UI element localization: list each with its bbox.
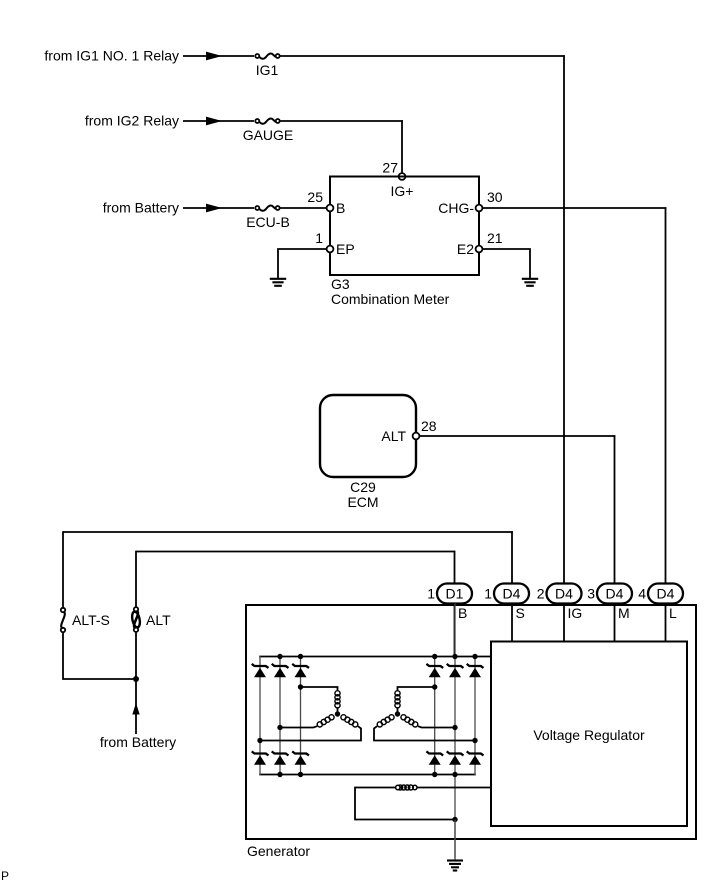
wire S vertical down to connector D4-1: [511, 531, 513, 583]
wire voltage regulator to rotor brush: [417, 787, 491, 789]
rectifier bottom diode 2: [272, 751, 289, 764]
svg-text:1: 1: [315, 230, 323, 246]
stator coil R-U (vertical): [395, 691, 400, 708]
svg-text:Voltage Regulator: Voltage Regulator: [533, 727, 645, 743]
wire stator L phase U (top tap): [301, 687, 338, 690]
svg-text:D4: D4: [503, 586, 521, 602]
svg-text:1: 1: [427, 586, 435, 602]
chassis ground symbol: [447, 861, 463, 871]
pin 28 terminal circle: [413, 433, 420, 440]
svg-text:E2: E2: [457, 241, 474, 257]
svg-text:B: B: [336, 200, 345, 216]
wire EP pin to ground: [278, 249, 327, 279]
label Voltage Regulator: [533, 727, 645, 743]
svg-text:ALT: ALT: [381, 428, 406, 444]
connector D4 pin 2 (IG): [537, 584, 582, 604]
label Generator: [247, 843, 310, 859]
ground for E2: [522, 279, 538, 286]
wire stator R phase W wrap to column 6: [374, 726, 475, 740]
wire stator L phase V to column 2: [280, 726, 317, 727]
flow arrow on battery feed: [206, 204, 222, 213]
wire junction down toward battery: [135, 679, 137, 734]
wire M terminal to voltage regulator: [614, 604, 616, 643]
wire coil to star point R: [397, 709, 399, 715]
pin 27 terminal circle: [399, 173, 406, 180]
wire battery to B terminal (horizontal): [136, 551, 455, 553]
stator coil R-W (lower-left diagonal): [377, 715, 394, 727]
stator coil R-V (lower-right diagonal): [401, 715, 418, 727]
terminal label S: [516, 605, 525, 621]
terminal label M: [618, 605, 630, 621]
terminal label L: [669, 605, 677, 621]
svg-text:4: 4: [638, 586, 646, 602]
svg-text:from IG2 Relay: from IG2 Relay: [85, 113, 179, 129]
svg-text:2: 2: [537, 586, 545, 602]
rectifier column wire 5 (B / ground column): [454, 604, 456, 859]
pin E2 terminal circle (21): [476, 246, 483, 253]
junction phase W tap: [257, 738, 262, 743]
wire battery to S terminal (top horizontal): [63, 531, 513, 533]
flow arrow on IG2 feed: [206, 117, 222, 126]
junction R phase W tap: [472, 738, 477, 743]
rectifier top diode 3: [292, 664, 309, 677]
connector D4 pin 3 (M): [587, 584, 632, 604]
svg-text:28: 28: [421, 418, 437, 434]
page letter P: [1, 869, 9, 882]
wire from battery feed: [183, 207, 254, 209]
junction R phase U tap: [432, 684, 437, 689]
rectifier bottom diode 4: [426, 751, 443, 764]
junction top bus col4: [432, 654, 437, 659]
wire IG1 vertical down to connector D4-2: [563, 55, 565, 583]
wire CHG- vertical down to connector D4-4: [665, 207, 667, 583]
wire from IG1 relay feed: [183, 55, 254, 57]
rectifier column wire 3: [300, 656, 302, 776]
rotor brush left: [396, 785, 400, 789]
star point right winding: [395, 711, 400, 716]
fusible link label ALT: [146, 612, 171, 628]
pin label IG+: [391, 183, 414, 199]
svg-text:IG1: IG1: [256, 62, 279, 78]
svg-text:D4: D4: [555, 586, 573, 602]
rectifier top diode 1: [252, 664, 269, 677]
junction R phase V tap: [452, 725, 457, 730]
wire coil to star point L: [337, 709, 339, 715]
wire E2 pin to ground: [482, 249, 530, 279]
star point left winding: [335, 711, 340, 716]
svg-text:from Battery: from Battery: [103, 200, 179, 216]
pin label B: [336, 200, 345, 216]
svg-text:27: 27: [382, 160, 398, 176]
designator C29: [350, 479, 376, 495]
svg-text:1: 1: [484, 586, 492, 602]
fuse ALT-S: [61, 608, 65, 632]
designator G3: [331, 276, 350, 292]
junction bottom bus col2: [277, 772, 282, 777]
junction rotor return on ground column: [452, 817, 457, 822]
label ECM: [347, 494, 378, 510]
wire B horizontal to ALT fusible link: [135, 551, 137, 608]
wire L terminal to voltage regulator: [665, 604, 667, 643]
svg-text:CHG-: CHG-: [438, 200, 474, 216]
flow arrow up from battery: [132, 703, 139, 715]
wire ECU-B fuse to meter pin B: [281, 207, 327, 209]
connector D4 pin 4 (L): [638, 584, 683, 604]
wire stator L phase W wrap to column 1: [260, 726, 361, 740]
wire from IG2 relay feed: [183, 120, 254, 122]
svg-text:D1: D1: [446, 586, 464, 602]
fuse IG1: [255, 54, 279, 59]
rectifier top diode 2: [272, 664, 289, 677]
wire ALT fusible link down to junction: [135, 632, 137, 680]
rotor brush right: [413, 785, 417, 789]
wire stator R phase U (top tap): [398, 687, 435, 690]
rotor field coil: [398, 785, 414, 790]
rectifier positive bus (top): [259, 656, 491, 658]
rectifier top diode 6: [467, 664, 484, 677]
ground for EP: [270, 279, 286, 286]
wire stator R phase V to column 5: [418, 726, 455, 727]
svg-text:30: 30: [487, 189, 503, 205]
net label: from IG2 Relay: [85, 113, 179, 129]
junction bottom bus col4: [432, 772, 437, 777]
svg-text:C29: C29: [350, 479, 376, 495]
junction top bus col6: [472, 654, 477, 659]
svg-text:G3: G3: [331, 276, 350, 292]
svg-text:IG+: IG+: [391, 183, 414, 199]
junction node battery feed: [133, 676, 139, 682]
stator coil L-W (lower-right diagonal): [341, 715, 358, 727]
fuse label ALT-S: [72, 612, 110, 628]
rectifier top diode 5: [447, 664, 464, 677]
wire IG terminal to voltage regulator: [563, 604, 565, 643]
svg-text:B: B: [458, 605, 467, 621]
fuse ECU-B: [255, 206, 279, 211]
combination meter G3 box: [330, 177, 479, 276]
wire top horizontal to ALT-S fuse: [62, 531, 64, 608]
fuse label IG1: [256, 62, 279, 78]
rectifier bottom diode 5: [447, 751, 464, 764]
ECM C29 box: [320, 395, 416, 477]
wire ALT vertical down to connector D4-3: [614, 435, 616, 583]
svg-text:S: S: [516, 605, 525, 621]
svg-text:Generator: Generator: [247, 843, 310, 859]
rectifier column wire 2: [279, 656, 281, 776]
net label: from Battery (generator feed): [100, 734, 176, 750]
wire IG1 fuse to connector D4-2 pin IG (horizontal): [281, 55, 565, 57]
voltage regulator box: [491, 642, 687, 827]
svg-text:D4: D4: [657, 586, 675, 602]
wire B vertical down to connector D1: [454, 551, 456, 584]
rectifier column wire 1: [259, 656, 261, 776]
pin label CHG-: [438, 200, 474, 216]
pin number 28: [421, 418, 437, 434]
junction phase U tap: [298, 684, 303, 689]
junction top bus col5: [452, 654, 457, 659]
fuse label ECU-B: [246, 214, 290, 230]
rectifier bottom diode 1: [252, 751, 269, 764]
connector D1 pin 1 (B): [427, 584, 472, 604]
svg-text:from IG1 NO. 1 Relay: from IG1 NO. 1 Relay: [44, 48, 179, 64]
svg-text:ECM: ECM: [347, 494, 378, 510]
svg-text:IG: IG: [568, 605, 583, 621]
fuse label GAUGE: [243, 127, 294, 143]
svg-text:GAUGE: GAUGE: [243, 127, 294, 143]
wire vertical down to meter pin 27: [401, 120, 403, 173]
pin number 21: [487, 230, 503, 246]
svg-text:P: P: [1, 869, 9, 882]
pin label E2: [457, 241, 474, 257]
svg-text:D4: D4: [606, 586, 624, 602]
svg-text:21: 21: [487, 230, 503, 246]
wire B terminal into generator: [454, 604, 456, 659]
rectifier top diode 4: [426, 664, 443, 677]
wire GAUGE fuse to meter pin 27 (horizontal): [281, 120, 403, 122]
wire rotor coil to ground column: [355, 788, 455, 820]
fusible link ALT: [131, 607, 141, 632]
svg-text:EP: EP: [336, 241, 355, 257]
junction top bus col3: [298, 654, 303, 659]
junction bottom bus col5: [452, 772, 457, 777]
pin number 25: [307, 189, 323, 205]
stator coil L-V (lower-left diagonal): [317, 715, 334, 727]
rectifier negative bus (bottom): [259, 774, 476, 776]
svg-text:ECU-B: ECU-B: [246, 214, 290, 230]
svg-text:ALT-S: ALT-S: [72, 612, 110, 628]
terminal label IG: [568, 605, 583, 621]
pin number 1: [315, 230, 323, 246]
wire ALT-S fuse to junction: [63, 632, 136, 679]
svg-text:Combination Meter: Combination Meter: [331, 291, 450, 307]
generator box: [246, 605, 696, 839]
net label: from Battery (meter feed): [103, 200, 179, 216]
terminal label B: [458, 605, 467, 621]
svg-text:ALT: ALT: [146, 612, 171, 628]
pin EP terminal circle (1): [327, 246, 334, 253]
flow arrow on IG1 feed: [206, 52, 222, 61]
rectifier bottom diode 3: [292, 751, 309, 764]
label Combination Meter: [331, 291, 450, 307]
fuse GAUGE: [255, 119, 279, 124]
svg-text:from Battery: from Battery: [100, 734, 176, 750]
svg-text:3: 3: [587, 586, 595, 602]
rectifier bottom diode 6: [467, 751, 484, 764]
wire generator to chassis ground: [454, 820, 456, 861]
net label: from IG1 NO. 1 Relay: [44, 48, 179, 64]
pin CHG- terminal circle (30): [476, 205, 483, 212]
wire CHG- pin to connector D4-4 (horizontal): [482, 207, 666, 209]
pin number 30: [487, 189, 503, 205]
svg-text:L: L: [669, 605, 677, 621]
wire S terminal to voltage regulator: [511, 604, 513, 643]
svg-text:M: M: [618, 605, 630, 621]
rectifier column wire 4: [434, 656, 436, 776]
pin label ALT: [381, 428, 406, 444]
connector D4 pin 1 (S): [484, 584, 529, 604]
junction bottom bus col3: [298, 772, 303, 777]
wire ALT pin to connector D4-3 (horizontal): [419, 435, 615, 437]
junction phase V tap: [277, 725, 282, 730]
pin B terminal circle (25): [327, 205, 334, 212]
svg-text:25: 25: [307, 189, 323, 205]
pin label EP: [336, 241, 355, 257]
junction top bus col2: [277, 654, 282, 659]
rectifier column wire 6: [474, 656, 476, 776]
pin number 27: [382, 160, 398, 176]
stator coil L-U (vertical): [335, 691, 340, 708]
